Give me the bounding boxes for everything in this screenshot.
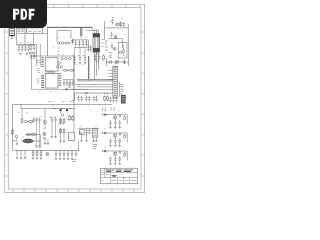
diode D5 <box>86 40 88 46</box>
ground <box>20 157 22 159</box>
crystal X1 <box>121 95 125 103</box>
ground <box>92 140 94 142</box>
ground <box>32 157 34 159</box>
capacitor C13 <box>66 80 68 86</box>
capacitor C62 <box>119 138 121 144</box>
capacitor C1 <box>18 46 20 52</box>
ground <box>95 140 97 142</box>
connector P2 label <box>104 132 106 134</box>
wire <box>72 40 88 48</box>
title small text <box>101 170 136 180</box>
transistor Q8 <box>60 109 62 111</box>
resistor R20 <box>63 128 65 134</box>
connector J1 mains inlet <box>10 29 15 36</box>
subtitle text TxST <box>112 176 117 177</box>
ground <box>114 162 116 164</box>
junction node C <box>61 108 62 109</box>
wire <box>17 33 48 45</box>
resistor R5 <box>65 57 67 59</box>
label marks <box>57 48 59 54</box>
resistor R33 <box>124 152 126 157</box>
zone tick marks top border <box>54 4 140 7</box>
transformer T1 bottom winding band <box>93 48 99 52</box>
capacitor C9 <box>73 55 76 61</box>
capacitor C58 <box>114 120 116 126</box>
title text PCM 9x16x TV Schematic <box>105 170 133 171</box>
diode D4 <box>82 40 84 46</box>
capacitor C45 <box>67 151 69 157</box>
capacitor C48 <box>85 128 87 134</box>
capacitor C49 <box>88 128 90 134</box>
wire <box>115 115 127 124</box>
junction dots left rail <box>16 149 19 152</box>
junction node B <box>54 108 55 109</box>
resistor R4 <box>61 57 63 59</box>
wire <box>14 141 79 151</box>
wire <box>47 27 49 56</box>
capacitor C20 <box>77 96 79 102</box>
wire <box>13 104 113 150</box>
ground <box>59 157 61 159</box>
PDF badge label text <box>13 9 35 20</box>
PDF badge <box>0 0 47 28</box>
resistor R23 <box>36 151 38 157</box>
pin marks <box>102 39 104 46</box>
wire <box>78 86 113 88</box>
capacitor C12 <box>63 80 65 86</box>
trimmer VR3 <box>119 151 121 153</box>
capacitor C44 <box>63 151 65 157</box>
capacitor C57 <box>109 120 111 126</box>
ground <box>79 62 81 64</box>
pin leads <box>103 107 114 110</box>
junction node A <box>66 88 68 90</box>
resistor R19 <box>60 128 62 134</box>
resistor R31 <box>26 134 32 136</box>
capacitor C32 <box>35 117 37 123</box>
resistor R11 <box>104 95 106 101</box>
wire <box>103 114 127 116</box>
wire <box>26 135 40 149</box>
capacitor C25 <box>95 96 97 102</box>
ground <box>44 142 46 144</box>
capacitor C16 <box>111 18 113 24</box>
wire <box>44 109 46 129</box>
wire <box>48 26 93 28</box>
transistor Q22 <box>114 134 117 137</box>
capacitor C35 <box>54 117 57 123</box>
op-amp IC1 <box>45 58 58 71</box>
wire <box>29 44 40 66</box>
op-amp IC2 <box>45 73 58 88</box>
transformer T1 windings <box>94 38 98 48</box>
transistor Q21 <box>114 116 117 119</box>
transistor Q4 <box>114 36 117 39</box>
resistor R12 <box>107 95 109 101</box>
diode D8 <box>123 22 125 27</box>
ground <box>51 135 53 137</box>
transistor Q7 <box>116 61 119 64</box>
capacitor C15 <box>72 80 74 86</box>
transistor Q23 <box>114 152 117 155</box>
title block grid <box>100 168 137 184</box>
zone tick marks left border <box>5 32 8 176</box>
resistor R3 <box>65 42 71 44</box>
capacitor C33 <box>38 117 40 123</box>
capacitor C59 <box>119 120 121 126</box>
resistor R24 <box>40 151 42 157</box>
capacitor C19 <box>110 60 111 64</box>
transistor Q1 <box>58 62 61 65</box>
wire <box>63 79 74 81</box>
ground <box>114 126 116 128</box>
resistor R15 <box>63 118 65 124</box>
capacitor C8 <box>32 53 35 59</box>
label P102 <box>93 145 97 149</box>
ground <box>71 157 73 159</box>
resistor R17 <box>72 115 74 121</box>
opto coupler row <box>47 71 49 73</box>
capacitor C64 <box>114 156 116 162</box>
capacitor C14 <box>69 80 71 86</box>
wire <box>106 61 129 63</box>
wire <box>17 134 64 143</box>
capacitor C11 <box>83 55 86 61</box>
connector P1 label <box>104 114 106 116</box>
resistor R18 <box>12 129 14 135</box>
resistor R2 <box>61 42 64 45</box>
diode D11 <box>94 55 96 61</box>
pin labels column right <box>59 74 62 86</box>
sheet outer border frame <box>5 4 145 192</box>
capacitor C28 <box>109 97 111 103</box>
capacitor C10 <box>78 55 81 61</box>
trimmer VR1 <box>119 115 121 117</box>
capacitor C2 <box>21 46 23 52</box>
ground <box>19 53 21 55</box>
capacitor C5 <box>29 45 32 51</box>
zone tick marks bottom border <box>13 189 134 192</box>
label marks <box>48 101 74 103</box>
wire <box>18 44 31 46</box>
wire <box>119 82 121 97</box>
ground <box>67 157 69 159</box>
wire <box>73 56 75 109</box>
capacitor C22 <box>85 96 87 102</box>
capacitor C60 <box>109 138 111 144</box>
resistor R27 <box>16 151 18 157</box>
resistor R30 <box>28 121 34 123</box>
ground <box>16 143 18 145</box>
ground <box>109 162 111 164</box>
transistor Q5 <box>114 48 117 51</box>
capacitor C23 <box>88 96 90 102</box>
capacitor C30 <box>115 97 117 103</box>
wire <box>86 27 99 33</box>
capacitor C47 <box>75 151 77 157</box>
capacitor C34 <box>50 117 53 123</box>
resistor R28 <box>20 151 22 157</box>
wire <box>57 31 71 42</box>
ground <box>36 157 38 159</box>
pin labels column IC2 <box>41 75 44 87</box>
diode D6 <box>87 45 89 51</box>
junction node F <box>103 92 106 95</box>
junction dots on supply rail <box>33 149 77 152</box>
resistor R8 <box>69 69 75 71</box>
resistor R9 <box>120 22 122 27</box>
zone tick marks right border <box>141 32 145 176</box>
transistor Q16 <box>25 120 27 122</box>
ground <box>35 145 37 147</box>
pin labels <box>120 84 123 94</box>
resistor R1 <box>57 42 60 45</box>
resistor R32 <box>124 134 126 139</box>
relay RL1 <box>17 28 25 33</box>
capacitor C24 <box>93 96 95 102</box>
resistor R22 <box>32 151 34 157</box>
ground <box>47 142 49 144</box>
wire <box>103 150 127 152</box>
ground <box>24 157 26 159</box>
wire <box>103 132 127 134</box>
junction node E <box>86 92 88 94</box>
capacitor C21 <box>80 96 82 102</box>
sheet inner border frame <box>8 8 141 189</box>
shield boundary thick line <box>77 56 113 81</box>
ground <box>73 62 75 64</box>
transistor Q3 <box>116 23 119 26</box>
capacitor C7 <box>29 53 32 59</box>
wire <box>36 123 39 145</box>
transistor Q12 <box>15 135 18 138</box>
wire <box>52 118 64 135</box>
ground <box>80 139 82 141</box>
wire <box>108 70 113 79</box>
wire <box>106 45 128 66</box>
pin marks <box>105 41 107 50</box>
wire <box>72 93 113 100</box>
fuse F1 marks <box>11 37 14 38</box>
pin marks <box>109 53 111 58</box>
wire <box>105 21 129 45</box>
wire <box>75 84 113 86</box>
trimmer VR2 <box>119 133 121 135</box>
wire <box>81 134 96 139</box>
ground <box>40 157 42 159</box>
wire <box>115 151 127 160</box>
ground <box>55 157 57 159</box>
resistor R13 <box>21 118 23 124</box>
resistor R6 <box>68 57 70 59</box>
ground <box>85 139 87 141</box>
ground <box>63 157 65 159</box>
component value labels <box>18 19 127 154</box>
connector CN1 pins <box>114 68 117 96</box>
ic box U4 <box>69 133 75 141</box>
wire <box>74 88 89 90</box>
capacitor C63 <box>109 156 111 162</box>
diode D7 <box>90 45 92 51</box>
connector P3 label <box>104 150 106 152</box>
capacitor C4 <box>27 46 29 52</box>
capacitor C43 <box>59 151 61 157</box>
ground <box>109 126 111 128</box>
ground <box>114 144 116 146</box>
title block outline <box>100 168 137 184</box>
capacitor C46 <box>71 151 73 157</box>
diode D1 <box>71 39 73 45</box>
capacitor C65 <box>119 156 121 162</box>
capacitor C6 <box>32 45 35 51</box>
ground <box>54 135 56 137</box>
connector CN1 <box>113 66 118 97</box>
transistor Q10 <box>44 121 47 124</box>
shield box primary module <box>32 56 75 89</box>
capacitor C29 <box>112 97 114 103</box>
wire <box>75 48 85 56</box>
transformer T1 core <box>93 34 100 53</box>
capacitor C31 <box>33 117 35 123</box>
ground <box>119 144 121 146</box>
diode D12 <box>98 55 100 61</box>
resistor R14 <box>60 118 62 124</box>
relay box K1 <box>118 43 127 58</box>
label P101 <box>72 160 76 162</box>
transistor Q11 <box>61 114 63 116</box>
ground <box>63 140 65 142</box>
transistor Q14 <box>46 153 49 156</box>
ground <box>16 157 18 159</box>
wire <box>96 54 100 61</box>
ground <box>109 144 111 146</box>
wire <box>70 88 113 90</box>
transistor Q9 <box>66 109 68 111</box>
ic box U6 <box>92 129 97 137</box>
ground <box>26 53 28 55</box>
resistor R16 <box>69 115 71 121</box>
resistor R29 <box>24 151 26 157</box>
inductor L1 <box>23 139 33 143</box>
capacitor C17 <box>110 32 112 38</box>
wire <box>108 39 122 49</box>
transistor Q17 <box>44 137 46 139</box>
ground <box>59 140 61 142</box>
wire <box>21 104 74 132</box>
pin labels column IC1 <box>41 58 44 67</box>
junction node D <box>69 108 70 109</box>
diode D2 <box>75 40 77 46</box>
capacitor C3 <box>24 46 26 52</box>
wire <box>115 133 127 142</box>
label marks <box>68 85 70 88</box>
resistor R31 <box>124 116 126 121</box>
resistor R7 <box>63 69 69 71</box>
transistor Q6 <box>119 51 122 54</box>
ground <box>38 145 40 147</box>
page background <box>0 0 149 198</box>
line filter FL1 <box>27 28 43 34</box>
wire <box>94 52 98 80</box>
resistor R32 <box>31 134 37 136</box>
transistor Q2 <box>57 66 60 69</box>
transformer T1 top winding band <box>93 34 99 37</box>
diode D3 <box>78 40 80 46</box>
capacitor C18 <box>111 43 113 49</box>
ground <box>84 62 86 64</box>
resistor R26 <box>103 55 105 61</box>
capacitor C42 <box>55 151 57 157</box>
capacitor C61 <box>114 138 116 144</box>
label marks <box>37 61 41 84</box>
resistor R10 <box>122 45 124 56</box>
diode D9 <box>123 60 125 64</box>
ic box U5 <box>80 130 85 135</box>
transistor Q13 <box>43 133 46 136</box>
wire <box>78 127 99 129</box>
transistor Q18 <box>60 66 63 69</box>
fuse F2 <box>80 29 82 35</box>
transistor Q15 <box>80 132 82 134</box>
ground <box>119 162 121 164</box>
ground <box>119 126 121 128</box>
